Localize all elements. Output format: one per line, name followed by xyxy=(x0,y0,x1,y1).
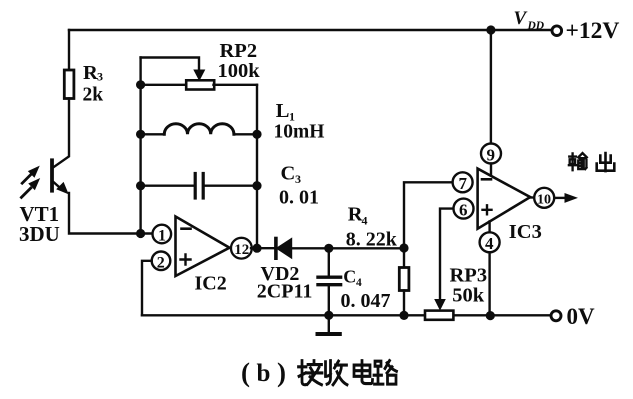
node tank left / RP2 junction xyxy=(136,80,145,89)
resistor R4 xyxy=(403,248,405,268)
wire RP2 wiper feed xyxy=(141,58,199,73)
svg-text:9: 9 xyxy=(487,146,496,165)
wire tank right vertical xyxy=(256,85,258,248)
wire IC2 pin2 feedback loop to 0V rail xyxy=(142,261,152,316)
svg-text:100k: 100k xyxy=(218,60,261,82)
svg-text:3DU: 3DU xyxy=(19,222,60,246)
svg-text:RP2: RP2 xyxy=(220,40,258,62)
light arrow 1 into VT1 xyxy=(22,174,31,183)
svg-text:3: 3 xyxy=(295,172,301,186)
node R4 top xyxy=(399,243,408,252)
label RP3 50k xyxy=(450,265,488,307)
node R4 bottom on 0V rail xyxy=(399,311,408,320)
svg-text:RP3: RP3 xyxy=(450,265,488,287)
IC3 minus sign xyxy=(482,178,491,181)
svg-text:2: 2 xyxy=(157,254,165,271)
label C4 0.047 xyxy=(341,267,391,313)
svg-text:0. 01: 0. 01 xyxy=(279,187,319,209)
node tank left / emitter junction xyxy=(136,229,145,238)
label output (shu chu) xyxy=(569,153,614,171)
wire RP2 right lead xyxy=(214,84,258,86)
terminal +12V xyxy=(552,26,562,36)
terminal 0V xyxy=(551,311,561,321)
svg-text:0. 047: 0. 047 xyxy=(341,290,391,312)
svg-text:): ) xyxy=(277,358,286,388)
wire IC3 pin6 to RP3 wiper xyxy=(440,209,454,299)
svg-text:10mH: 10mH xyxy=(274,121,325,142)
svg-text:1: 1 xyxy=(158,228,166,245)
svg-text:V: V xyxy=(514,8,528,29)
capacitor C3 xyxy=(141,184,194,186)
node tank right / C3 junction xyxy=(252,181,261,190)
wire pin9 stem xyxy=(490,164,492,177)
wire pin4 stem and down to 0V rail xyxy=(488,222,490,316)
label VD2 2CP11 xyxy=(257,263,313,303)
label VT1 3DU xyxy=(19,202,60,246)
svg-text:L: L xyxy=(276,100,290,122)
svg-text:0V: 0V xyxy=(567,304,596,329)
svg-text:8. 22k: 8. 22k xyxy=(346,229,398,251)
label R4 8.22k xyxy=(346,204,398,251)
wire 0V rail xyxy=(142,314,551,316)
node pin4 on 0V rail xyxy=(486,311,495,320)
capacitor C4 xyxy=(328,248,330,275)
potentiometer RP3 xyxy=(425,311,453,320)
svg-text:R: R xyxy=(348,204,363,226)
node C4 bottom on 0V rail xyxy=(324,311,333,320)
node top-rail / IC3 pin9 junction xyxy=(486,25,495,34)
svg-text:R: R xyxy=(83,62,98,84)
pin 2 IC2 xyxy=(152,251,171,270)
net label Vdd xyxy=(514,8,545,32)
label C3 0.01 xyxy=(279,162,319,208)
svg-text:C: C xyxy=(343,267,356,287)
svg-text:4: 4 xyxy=(356,277,362,289)
node tank left / C3 junction xyxy=(136,181,145,190)
svg-text:DD: DD xyxy=(527,20,545,32)
svg-text:IC2: IC2 xyxy=(195,273,227,295)
svg-text:+12V: +12V xyxy=(566,18,620,44)
pin 9 IC3 xyxy=(481,144,501,164)
node tank right / L1 junction xyxy=(252,130,261,139)
svg-text:10: 10 xyxy=(537,193,551,208)
node tank left / L1 junction xyxy=(136,130,145,139)
op-amp IC3 xyxy=(478,169,531,229)
wiper arrowhead RP2 xyxy=(194,70,204,80)
wire R3 bottom to VT1 collector xyxy=(54,99,69,168)
svg-text:IC3: IC3 xyxy=(509,221,542,243)
wiper arrowhead RP3 xyxy=(435,300,445,310)
svg-text:(: ( xyxy=(241,358,250,388)
wire output arrow xyxy=(554,197,566,199)
svg-text:b: b xyxy=(257,360,271,387)
op-amp IC2 xyxy=(176,217,230,277)
light arrow 2 into VT1 xyxy=(21,188,30,197)
svg-text:4: 4 xyxy=(362,213,368,227)
svg-text:7: 7 xyxy=(459,174,468,193)
wire tank left vertical xyxy=(139,58,141,234)
pin 1 IC2 xyxy=(153,225,172,244)
potentiometer RP2 xyxy=(186,80,214,89)
IC3 plus sign xyxy=(483,205,492,214)
label R3 2k xyxy=(83,62,104,106)
svg-text:C: C xyxy=(281,162,296,184)
pin 4 IC3 xyxy=(480,232,500,252)
pin 6 IC3 xyxy=(454,199,474,219)
svg-text:50k: 50k xyxy=(452,284,485,306)
svg-text:6: 6 xyxy=(459,200,468,219)
ground xyxy=(328,315,330,333)
wire R3 top xyxy=(68,30,70,70)
resistor R3 xyxy=(64,70,74,99)
wire RP2 left lead xyxy=(141,84,186,86)
wire top supply rail xyxy=(69,29,552,31)
svg-text:2k: 2k xyxy=(83,84,104,105)
pin 7 IC3 xyxy=(453,172,473,192)
IC2 minus sign xyxy=(182,227,191,230)
wire diode to R4 node xyxy=(290,247,404,249)
svg-text:3: 3 xyxy=(97,70,103,84)
IC2 plus sign xyxy=(181,255,191,265)
label RP2 100k xyxy=(218,40,261,82)
wire IC3 pin7 to R4 top node xyxy=(404,182,453,248)
wire VT1 emitter to IC2 input xyxy=(69,193,153,234)
pin 10 IC3 output xyxy=(530,196,534,198)
inductor L1 xyxy=(141,133,165,135)
svg-text:2CP11: 2CP11 xyxy=(257,281,313,303)
wire IC2 output to diode xyxy=(251,247,275,249)
wire top rail to IC3 pin9 xyxy=(490,30,492,144)
diode VD2 xyxy=(274,239,278,259)
node tank right / IC2 output junction xyxy=(252,244,261,253)
svg-text:4: 4 xyxy=(485,234,494,253)
label L1 10mH xyxy=(274,100,325,143)
pin 12 IC2 output xyxy=(230,247,233,249)
transistor VT1 xyxy=(50,160,54,190)
caption (b) receive circuit xyxy=(241,358,286,388)
node C4 top xyxy=(324,244,333,253)
svg-text:12: 12 xyxy=(234,242,249,258)
